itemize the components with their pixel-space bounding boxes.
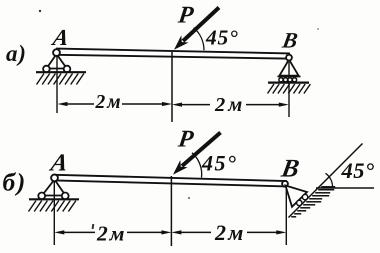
wire: extension line at A (top) xyxy=(56,56,58,113)
ground hatching at A (top) xyxy=(37,74,84,85)
pin support A (bottom): hinge circle xyxy=(51,175,58,182)
svg-text:2м: 2м xyxy=(96,222,126,246)
svg-text:2м: 2м xyxy=(214,220,245,245)
force P (top): shaft xyxy=(183,8,219,42)
wire: extension line at B (bottom) xyxy=(285,188,287,245)
dimension line 2m right (top) xyxy=(172,94,289,116)
roller support B (top): rollers xyxy=(279,78,283,82)
ground hatching block at B (top) xyxy=(268,84,311,94)
svg-text:45°: 45° xyxy=(341,158,375,183)
svg-text:45°: 45° xyxy=(201,151,237,176)
ground line at B (top) xyxy=(268,81,309,83)
angle arc 45 (top) xyxy=(194,28,204,51)
wire: extension line at A (bottom) xyxy=(53,182,55,245)
angle arc 45 (bottom mid) xyxy=(192,153,202,178)
ground line at A (top) xyxy=(36,71,86,73)
ground hatching at A (bottom) xyxy=(29,201,76,212)
dimension line 2m left (bottom) xyxy=(54,222,171,246)
pin support A (top): hinge circle xyxy=(53,49,60,56)
wire: extension line at midspan (top) xyxy=(171,52,173,122)
svg-text:2м: 2м xyxy=(214,94,245,116)
force P (bottom): arrowhead xyxy=(173,160,188,175)
ground line at A (bottom) xyxy=(29,198,79,200)
beam AB (top) xyxy=(57,49,289,59)
pin support A (top): base rollers xyxy=(43,66,50,73)
speck xyxy=(39,10,41,12)
beam AB (bottom) xyxy=(55,175,286,187)
force P (bottom): shaft xyxy=(182,133,221,167)
speck xyxy=(188,197,190,199)
speck xyxy=(317,28,319,30)
wire: extension line at midspan (bottom) xyxy=(170,176,172,246)
angle arc 45 (bottom right) xyxy=(326,173,333,188)
pin support A (bottom): base rollers xyxy=(38,193,45,200)
force P (top): arrowhead xyxy=(174,35,189,50)
pin support A (top): triangle xyxy=(47,54,67,69)
horizontal reference line at B (bottom) xyxy=(316,187,374,189)
svg-text:2м: 2м xyxy=(95,92,123,113)
speck near bottom 2m xyxy=(92,224,95,229)
inclined surface hatching (horizontal dashes) xyxy=(291,187,335,217)
inclined roller support B (bottom): hinge circle xyxy=(282,181,288,187)
roller support B (top): base plate xyxy=(278,76,301,78)
inclined surface line at B (bottom) xyxy=(289,144,363,218)
pin support A (bottom): triangle xyxy=(42,180,66,196)
roller support B (top): hinge circle xyxy=(286,55,292,61)
svg-text:б): б) xyxy=(3,168,27,197)
inclined roller support B (bottom): rollers xyxy=(297,200,302,205)
svg-text:а): а) xyxy=(6,41,27,66)
svg-text:45°: 45° xyxy=(205,26,239,50)
inclined roller support B (bottom): triangle xyxy=(286,186,308,207)
dimension line 2m right (bottom) xyxy=(171,220,286,245)
roller support B (top): triangle xyxy=(280,60,299,76)
wire: extension line at B (top) xyxy=(288,62,290,117)
dimension line 2m left (top) xyxy=(58,92,173,113)
